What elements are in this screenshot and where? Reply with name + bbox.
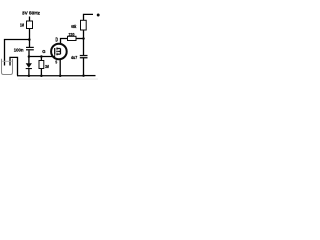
svg-text:100n: 100n bbox=[14, 48, 24, 53]
svg-text:4u7: 4u7 bbox=[71, 55, 78, 60]
svg-text:220: 220 bbox=[69, 32, 75, 37]
svg-text:1M: 1M bbox=[20, 23, 24, 28]
svg-text:68k: 68k bbox=[71, 24, 76, 29]
svg-text:S: S bbox=[55, 60, 57, 65]
svg-text:3V 50Hz: 3V 50Hz bbox=[22, 10, 41, 16]
svg-text:D: D bbox=[56, 37, 58, 43]
svg-text:3M: 3M bbox=[45, 64, 49, 69]
svg-text:G: G bbox=[42, 49, 46, 55]
